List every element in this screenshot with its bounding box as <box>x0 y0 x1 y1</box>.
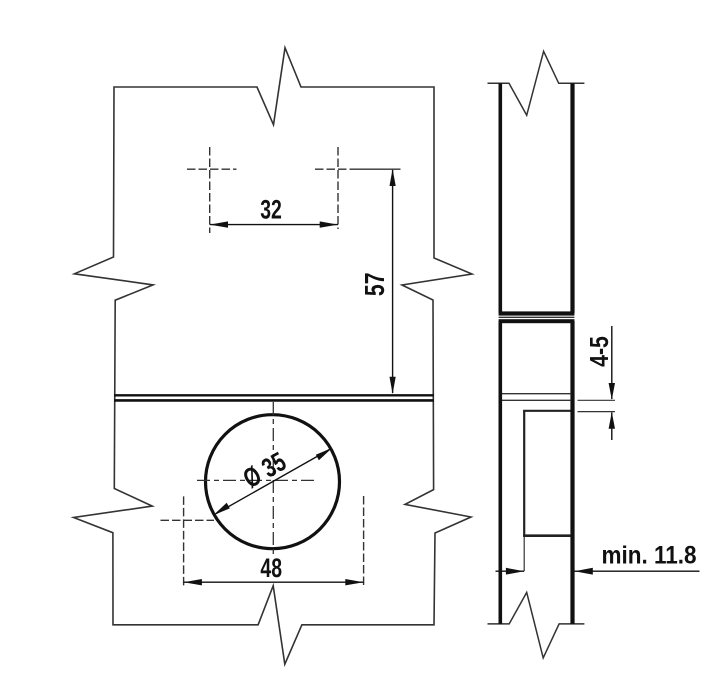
svg-text:48: 48 <box>260 553 282 583</box>
svg-text:min. 11.8: min. 11.8 <box>602 541 697 569</box>
svg-text:Ø 35: Ø 35 <box>238 447 291 495</box>
svg-text:57: 57 <box>359 272 391 296</box>
svg-text:32: 32 <box>260 194 282 224</box>
svg-text:4-5: 4-5 <box>585 336 615 367</box>
